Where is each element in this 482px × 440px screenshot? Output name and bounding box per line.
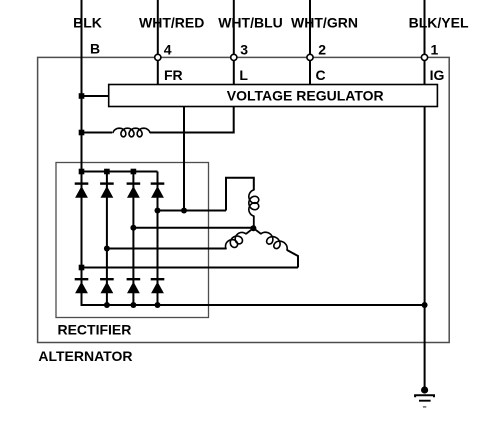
svg-text:VOLTAGE REGULATOR: VOLTAGE REGULATOR: [227, 87, 384, 103]
svg-text:WHT/RED: WHT/RED: [139, 14, 204, 30]
svg-text:1: 1: [431, 41, 439, 57]
svg-text:C: C: [316, 67, 326, 83]
svg-text:BLK/YEL: BLK/YEL: [409, 14, 469, 30]
svg-text:ALTERNATOR: ALTERNATOR: [38, 348, 132, 364]
svg-text:B: B: [90, 40, 100, 56]
svg-text:WHT/GRN: WHT/GRN: [291, 14, 358, 30]
svg-text:L: L: [239, 67, 248, 83]
svg-text:WHT/BLU: WHT/BLU: [218, 14, 283, 30]
svg-text:IG: IG: [430, 67, 445, 83]
svg-text:FR: FR: [164, 67, 183, 83]
svg-text:3: 3: [240, 41, 248, 57]
svg-text:RECTIFIER: RECTIFIER: [57, 322, 131, 338]
svg-text:2: 2: [318, 41, 326, 57]
svg-text:BLK: BLK: [73, 14, 102, 30]
svg-text:4: 4: [164, 41, 172, 57]
